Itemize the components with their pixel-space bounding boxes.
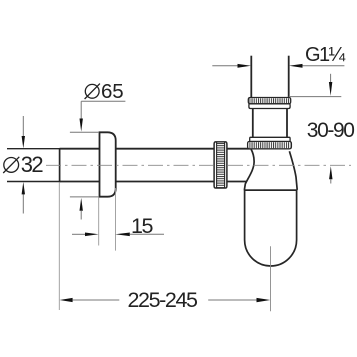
svg-text:G1¼: G1¼ bbox=[305, 44, 345, 66]
svg-text:225-245: 225-245 bbox=[128, 288, 199, 312]
svg-text:15: 15 bbox=[131, 214, 154, 238]
svg-text:65: 65 bbox=[101, 80, 123, 103]
svg-text:32: 32 bbox=[21, 152, 44, 177]
svg-text:30-90: 30-90 bbox=[307, 119, 354, 142]
